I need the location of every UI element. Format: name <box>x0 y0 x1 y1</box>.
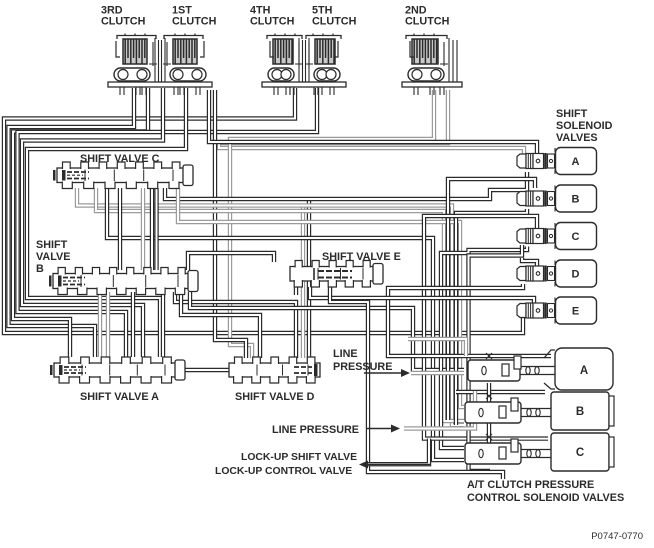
pipe shift valve A to shift valve D <box>184 368 229 372</box>
svg-text:SOLENOID: SOLENOID <box>556 120 613 132</box>
shift valve E spool <box>314 268 352 280</box>
shift valve E body <box>290 261 383 288</box>
pipe shift solenoid C top to control solenoid C <box>424 216 548 439</box>
junction control solenoid A top <box>486 353 492 359</box>
pipe 1ST clutch feed to shift valve A <box>13 88 148 357</box>
pipe control solenoid B to C <box>487 423 491 443</box>
pipe shift valve C to shift valve B port1 <box>150 188 154 270</box>
shift solenoid valve A <box>517 148 597 175</box>
pipe shift solenoid C to shift solenoid D <box>522 258 537 267</box>
pipe shift valve C to control solenoid B top (gray) <box>178 188 464 407</box>
svg-text:A/T CLUTCH PRESSURE: A/T CLUTCH PRESSURE <box>467 479 594 491</box>
pipe junction to shift valve D <box>307 199 311 358</box>
pipe shift valve B to shift valve A (gray2) <box>106 292 110 357</box>
svg-text:LINE: LINE <box>333 348 358 360</box>
pipe clutch feed to shift valve A port5 <box>27 88 186 357</box>
arrow lock-up valves <box>359 461 431 469</box>
svg-text:SHIFT VALVE E: SHIFT VALVE E <box>322 251 401 263</box>
pipe shift solenoid B top <box>448 179 535 420</box>
svg-text:LOCK-UP SHIFT VALVE: LOCK-UP SHIFT VALVE <box>241 452 357 463</box>
svg-text:LINE PRESSURE: LINE PRESSURE <box>272 424 359 436</box>
pipe 2ND clutch to shift solenoid A (gray) <box>219 90 524 155</box>
shift solenoid valve B <box>517 185 597 212</box>
pipe clutch feed to shift solenoid A top <box>209 90 537 153</box>
pipe shift valve E to control solenoid C bottom <box>330 287 503 479</box>
arrow line pressure lower <box>366 425 400 433</box>
pipe shift solenoid C feed <box>441 247 527 449</box>
pipe lock-up valves junction <box>366 439 429 465</box>
svg-text:A: A <box>580 365 588 377</box>
pipe 3RD clutch feed to shift valve A <box>9 88 135 357</box>
svg-text:CONTROL SOLENOID VALVES: CONTROL SOLENOID VALVES <box>467 492 624 504</box>
svg-text:A: A <box>572 156 580 168</box>
pipe shift valve B to shift valve A port <box>131 292 135 357</box>
shift solenoid valve D <box>517 260 597 287</box>
pipe line pressure to control solenoid A (gray) <box>411 371 464 375</box>
svg-text:C: C <box>576 447 584 459</box>
pipe shift valve B to shift valve A port6 <box>161 292 165 357</box>
shift valve B body <box>49 268 198 295</box>
svg-text:B: B <box>576 406 584 418</box>
pipe shift valve E left port stub <box>294 287 298 295</box>
pipe shift valve B to shift valve D <box>175 292 296 358</box>
pipe 2ND clutch to shift valve D (gray) <box>230 90 434 358</box>
pipe shift valve C to control solenoid B port2 (gray) <box>96 188 464 421</box>
svg-text:LOCK-UP CONTROL VALVE: LOCK-UP CONTROL VALVE <box>215 466 352 477</box>
svg-text:D: D <box>572 269 580 281</box>
svg-text:P0747-0770: P0747-0770 <box>591 531 643 542</box>
shift valve D spring <box>314 364 318 376</box>
pipe 4TH clutch feed via left bus to shift solenoid E <box>4 88 523 333</box>
pipe shift solenoid B feed <box>456 209 527 425</box>
pipe shift valve B to shift valve A (gray) <box>98 292 102 357</box>
svg-text:VALVE: VALVE <box>36 251 70 263</box>
shift solenoid valve E <box>517 297 597 324</box>
svg-text:VALVES: VALVES <box>556 132 598 144</box>
clutch 2ND <box>402 34 462 96</box>
clutch pair 3RD/1ST <box>108 34 212 96</box>
pipe shift valve C to shift valve B port2 <box>154 188 158 270</box>
svg-text:B: B <box>36 263 44 275</box>
pipe shift valve C to shift valve B (gray) <box>141 188 145 270</box>
pipe shift valve C to control solenoid B (gray) <box>77 188 464 425</box>
svg-text:SHIFT VALVE D: SHIFT VALVE D <box>235 391 315 403</box>
A/T clutch pressure control solenoid valve B <box>465 392 614 430</box>
pipe clutch feed to shift valve A port4 <box>22 88 163 357</box>
pipe shift valve C to shift valve B port3 <box>118 188 122 270</box>
svg-text:CLUTCH: CLUTCH <box>101 16 146 28</box>
pipe shift valve B to shift valve D port2 <box>181 292 260 358</box>
pipe shift solenoid D feed to control solenoid A <box>388 284 551 356</box>
pipe control solenoid A to B gray <box>473 391 477 402</box>
pipe shift valve C to shift solenoid A feed <box>165 172 527 199</box>
svg-text:B: B <box>572 194 580 206</box>
pipe control solenoid A to B <box>487 383 491 402</box>
arrow line pressure upper <box>364 369 410 377</box>
pipe line pressure to control solenoid B (gray) <box>404 423 475 429</box>
A/T clutch pressure control solenoid valve C <box>465 433 614 471</box>
svg-text:SHIFT: SHIFT <box>556 108 588 120</box>
junction control solenoid A-B <box>486 393 492 399</box>
pipe wrap control solenoid B top <box>456 390 545 394</box>
svg-text:C: C <box>572 231 580 243</box>
svg-text:SHIFT: SHIFT <box>36 239 68 251</box>
pipe junction to shift valve D (gray) <box>301 206 305 359</box>
pipe shift valve B to control solenoid A <box>190 292 464 370</box>
pipe shift valve E to shift solenoid E top <box>310 287 534 303</box>
svg-text:CLUTCH: CLUTCH <box>405 16 450 28</box>
pipe shift solenoid C nose to control solenoid C bottom <box>469 245 523 471</box>
pipe to control solenoid A top (gray) <box>408 339 466 356</box>
svg-text:CLUTCH: CLUTCH <box>250 16 295 28</box>
svg-text:CLUTCH: CLUTCH <box>172 16 217 28</box>
svg-text:CLUTCH: CLUTCH <box>312 16 357 28</box>
svg-text:PRESSURE: PRESSURE <box>333 361 392 373</box>
shift solenoid valve C <box>517 223 597 250</box>
shift valve C body <box>53 162 193 189</box>
A/T clutch pressure control solenoid valve A <box>468 348 613 390</box>
junction control solenoid B-C <box>486 434 492 440</box>
clutch pair 4TH/5TH <box>262 34 346 96</box>
pipe 1ST clutch feed to shift valve D <box>215 90 246 358</box>
svg-text:SHIFT VALVE A: SHIFT VALVE A <box>80 391 159 403</box>
shift valve A body <box>50 357 185 383</box>
pipe 5TH clutch feed to shift valve A port3 <box>18 88 318 357</box>
svg-text:E: E <box>572 306 579 318</box>
svg-text:SHIFT VALVE C: SHIFT VALVE C <box>80 153 160 165</box>
pipe shift valve C to control solenoid C <box>107 188 464 460</box>
shift valve D body <box>229 357 320 383</box>
pipe shift valve B to shift valve E left <box>188 253 274 270</box>
